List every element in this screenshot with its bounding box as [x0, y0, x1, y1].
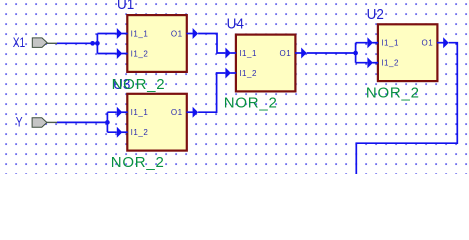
svg-text:I1_2: I1_2: [381, 59, 399, 68]
designator label U2: [367, 7, 384, 24]
svg-text:Y: Y: [16, 114, 23, 130]
svg-text:I1_1: I1_1: [239, 49, 257, 58]
designator label U1: [117, 0, 134, 13]
svg-text:I1_1: I1_1: [131, 30, 149, 39]
NOR gate U4 body: [236, 35, 296, 92]
svg-text:I1_1: I1_1: [131, 108, 149, 117]
svg-text:I1_1: I1_1: [381, 39, 399, 48]
NOR gate U3 body: [127, 94, 187, 151]
junction dot U4 output net: [353, 51, 358, 56]
svg-text:NOR_2: NOR_2: [366, 84, 420, 101]
U2 pin I1_1 (input arrow): [367, 37, 378, 48]
wire Y to U3 inputs: [57, 112, 117, 132]
svg-text:U2: U2: [367, 7, 384, 24]
svg-text:U1: U1: [117, 0, 134, 13]
U2 pin O1 (output arrow): [437, 37, 449, 48]
port label Y: [16, 114, 23, 130]
U3 pin label O1: [171, 108, 183, 117]
junction dots X1 net: [90, 41, 100, 46]
wire U2.O1 output run: [356, 43, 457, 175]
U1 pin I1_1 (input arrow): [117, 28, 128, 39]
U1 pin O1 (output arrow): [187, 28, 199, 39]
input port X1: [32, 38, 57, 48]
svg-text:U4: U4: [227, 16, 244, 33]
U2 pin I1_2 (input arrow): [367, 57, 378, 68]
wire U1.O1 to U4.I1_1: [198, 34, 225, 54]
value label NOR_2 of U4: [224, 94, 278, 111]
svg-text:I1_2: I1_2: [131, 50, 149, 59]
value label NOR_2 of U3: [111, 154, 165, 171]
NOR gate U1 body: [127, 15, 187, 72]
U1 pin I1_2 (input arrow): [117, 48, 128, 59]
U2 pin label O1: [422, 39, 434, 48]
U3 pin I1_2 (input arrow): [117, 127, 128, 138]
svg-text:O1: O1: [280, 49, 292, 58]
junction dot Y net: [105, 120, 110, 125]
input port Y: [32, 118, 57, 128]
U2 pin label I1_1: [381, 39, 399, 48]
U4 pin label I1_2: [239, 69, 257, 78]
svg-text:NOR_2: NOR_2: [112, 76, 166, 93]
svg-text:I1_2: I1_2: [131, 128, 149, 137]
U4 pin label O1: [280, 49, 292, 58]
wire X1 to U1 inputs: [57, 34, 117, 54]
svg-text:I1_2: I1_2: [239, 69, 257, 78]
U4 pin label I1_1: [239, 49, 257, 58]
value label NOR_2 of U2: [366, 84, 420, 101]
port label X1: [13, 34, 26, 50]
designator label U4: [227, 16, 244, 33]
value label NOR_2 of U1: [112, 76, 166, 93]
svg-text:O1: O1: [171, 108, 183, 117]
U4 pin I1_2 (input arrow): [225, 68, 236, 79]
U3 pin O1 (output arrow): [187, 107, 199, 118]
svg-text:O1: O1: [171, 30, 183, 39]
svg-text:NOR_2: NOR_2: [224, 94, 278, 111]
U3 pin label I1_2: [131, 128, 149, 137]
NOR gate U2 body: [378, 24, 438, 81]
U4 pin I1_1 (input arrow): [225, 48, 236, 59]
U3 pin label I1_1: [131, 108, 149, 117]
U4 pin O1 (output arrow): [295, 48, 307, 59]
svg-text:NOR_2: NOR_2: [111, 154, 165, 171]
U1 pin label O1: [171, 30, 183, 39]
U3 pin I1_1 (input arrow): [117, 107, 128, 118]
wire U3.O1 to U4.I1_2: [198, 73, 225, 112]
U1 pin label I1_2: [131, 50, 149, 59]
svg-text:O1: O1: [422, 39, 434, 48]
U2 pin label I1_2: [381, 59, 399, 68]
U1 pin label I1_1: [131, 30, 149, 39]
designator label U3: [113, 76, 130, 93]
svg-text:X1: X1: [13, 34, 26, 50]
wire U4.O1 to U2 inputs: [307, 43, 368, 63]
